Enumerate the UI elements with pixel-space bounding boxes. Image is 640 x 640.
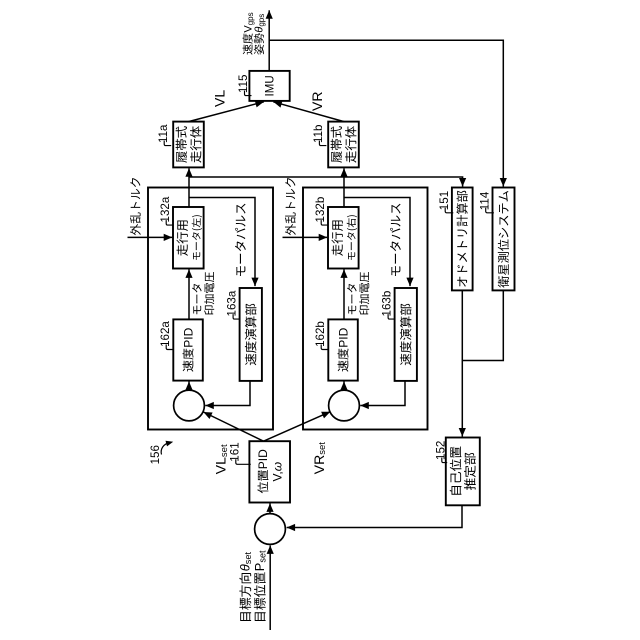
text 印加電圧 (applied voltage line2, B) — [359, 272, 369, 314]
text 走行用 (left) — [177, 221, 188, 256]
svg-text:132a: 132a — [159, 196, 172, 222]
svg-text:VR: VR — [309, 92, 325, 111]
svg-text:11b: 11b — [312, 125, 325, 143]
text 外乱トルク (disturbance torque, A) — [130, 178, 141, 235]
wire: input setpoint arrow into S0 — [269, 545, 271, 630]
text モータ(左) — [192, 215, 202, 260]
svg-text:163a: 163a — [226, 290, 239, 316]
text 履帯式 (left) — [176, 126, 187, 162]
summing junction S0 (position error) — [255, 514, 286, 545]
label 114 with leader — [486, 208, 494, 213]
label 162b with leader — [321, 345, 328, 350]
text 走行体 (left) — [190, 126, 201, 163]
leader arrow for 156 — [161, 443, 169, 455]
wire: 速度演算部 A feedback to junction A — [205, 381, 250, 406]
svg-text:PID: PID — [181, 327, 195, 347]
wire: 速度PID B to motor B — [343, 269, 345, 319]
wire: motor pulse branch A — [189, 198, 255, 287]
text 速度演算部 (left) — [245, 304, 257, 366]
svg-text:151: 151 — [438, 191, 451, 210]
wire: motor B to crawler 11b — [343, 168, 345, 207]
svg-text:IMU: IMU — [265, 75, 277, 96]
block 163a 速度演算部 (left) — [240, 288, 262, 381]
wire: estimator feedback to S0 — [287, 505, 462, 527]
svg-text:114: 114 — [478, 191, 491, 210]
wire: 速度PID A to motor A — [188, 269, 190, 319]
svg-text:PID: PID — [256, 449, 270, 469]
block 162b 速度PID (right) — [328, 319, 358, 380]
wire: satellite output joining odometry line — [462, 290, 503, 360]
svg-text:161: 161 — [228, 442, 241, 461]
wire: motor A to crawler 11a — [188, 168, 190, 207]
text 印加電圧 (applied voltage line2, A) — [204, 272, 214, 314]
text オドメトリ計算部 — [456, 191, 467, 287]
wire: motor pulse branch B — [344, 198, 410, 287]
svg-text:V,ω: V,ω — [270, 462, 284, 482]
text 履帯式 (right) — [331, 126, 342, 162]
svg-text:132b: 132b — [314, 197, 327, 223]
wire: crawler 11a to IMU (VL) — [189, 102, 264, 122]
speed control loop box (right motor loop, lower) — [303, 188, 428, 430]
svg-text:162a: 162a — [159, 321, 172, 347]
wire: junction A to 速度PID A — [188, 382, 190, 391]
block 114 衛星測位システム — [493, 188, 515, 291]
speed control loop box (left motor loop, upper) — [148, 188, 273, 430]
wire: 速度演算部 B feedback to junction B — [360, 381, 405, 406]
wire: odometry output to 自己位置推定部 — [461, 290, 463, 436]
text 衛星測位システム — [498, 191, 509, 288]
block 161 位置PID (position PID, V/omega) — [249, 441, 290, 502]
wire: odometry feed line — [189, 177, 463, 187]
label 151 with leader — [445, 208, 453, 213]
text モータ (applied voltage line1, A) — [192, 284, 202, 314]
text 目標位置Pset (target position) — [254, 572, 266, 621]
label 11a with leader — [164, 141, 171, 146]
text 走行体 (right) — [345, 126, 356, 163]
svg-text:162b: 162b — [314, 321, 327, 347]
wire: IMU output arrow — [268, 10, 270, 71]
text 速度PID (left) — [183, 349, 194, 372]
wire: GPS branch down to 衛星測位システム — [269, 40, 503, 186]
label 132b with leader — [321, 220, 328, 225]
wire: disturbance torque arrow A — [128, 236, 173, 238]
text 推定部 — [464, 453, 476, 490]
text 位置PID line1 — [257, 470, 268, 493]
svg-text:11a: 11a — [157, 124, 170, 143]
svg-text:156: 156 — [149, 445, 162, 464]
text 走行用 (right) — [332, 221, 343, 256]
text 速度PID (right) — [338, 349, 349, 372]
text モータパルス (motor pulse, A) — [235, 204, 246, 276]
text モータ (applied voltage line1, B) — [347, 284, 357, 314]
text 外乱トルク (disturbance torque, B) — [285, 178, 296, 235]
block 152 自己位置推定部 — [446, 438, 480, 506]
wire: S0 to 位置PID — [269, 503, 271, 513]
block 132a 走行用モータ(左) — [173, 207, 204, 269]
block 162a 速度PID (left) — [173, 319, 203, 380]
svg-text:163b: 163b — [381, 291, 394, 317]
wire: junction B to 速度PID B — [343, 382, 345, 391]
block 132b 走行用モータ(右) — [328, 207, 359, 269]
block 115 IMU — [249, 71, 289, 101]
svg-text:PID: PID — [336, 327, 350, 347]
wire: disturbance torque arrow B — [283, 236, 328, 238]
block 151 オドメトリ計算部 — [452, 188, 473, 291]
label 161 with leader — [236, 459, 251, 464]
text 目標方向θset (target direction) — [239, 573, 251, 621]
text 速度Vgps (IMU output line1) — [243, 33, 253, 54]
svg-text:115: 115 — [237, 75, 250, 93]
block 163b 速度演算部 (right) — [395, 288, 417, 381]
label 163a with leader — [233, 314, 240, 319]
text モータ(右) — [347, 215, 357, 260]
text 姿勢θgps (IMU output line2) — [254, 33, 264, 54]
wire: crawler 11b to IMU (VR) — [273, 102, 344, 122]
block 11b 履帯式走行体 (right) — [328, 122, 359, 168]
summing junction B (right speed error) — [329, 390, 360, 421]
block 11a 履帯式走行体 (left) — [173, 122, 204, 168]
summing junction A (left speed error) — [174, 390, 205, 421]
label 152 with leader — [442, 458, 447, 463]
text モータパルス (motor pulse, B) — [390, 204, 401, 276]
svg-text:152: 152 — [434, 441, 447, 460]
svg-text:VL: VL — [212, 90, 228, 107]
label 132a with leader — [166, 220, 173, 225]
text 速度演算部 (right) — [400, 304, 412, 366]
label 163b with leader — [388, 314, 395, 319]
wire: VLset diagonal to junction A — [203, 412, 263, 441]
text 自己位置 — [450, 447, 462, 495]
wire: VRset diagonal to junction B — [264, 412, 331, 442]
label 162a with leader — [166, 345, 173, 350]
label 11b with leader — [319, 141, 326, 146]
label 115 with leader — [245, 91, 252, 96]
